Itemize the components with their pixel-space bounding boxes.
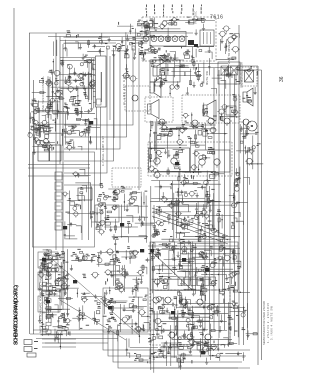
- switch section box S1b: [50, 145, 62, 161]
- wire jack lead 2: [42, 342, 76, 344]
- net label column N1: [146, 5, 147, 17]
- IF transformer can T4: [165, 36, 171, 42]
- IF transformer can T5: [172, 36, 178, 42]
- wire long vertical at x88: [88, 118, 90, 240]
- connector pin box P2: [55, 182, 62, 190]
- speaker SP3: [148, 100, 160, 119]
- wire right vertical bus line 7: [234, 74, 236, 336]
- wire regulator block left edge inner: [152, 242, 154, 358]
- wire diagonal mid-right 3: [152, 216, 228, 244]
- transformer row box T2-T8: [150, 32, 186, 47]
- oscillator cluster (Q2 X1 R30-R36 C40-C48): [44, 55, 97, 118]
- wire right vertical bus line 5: [224, 70, 226, 330]
- regulator section box G3: [191, 277, 196, 286]
- power chain resistor R86: [46, 299, 51, 303]
- transistor Q7 can: [243, 119, 249, 125]
- wire mid-left horizontal bus line 1: [28, 164, 90, 166]
- wire top-right corner vertical stub outer: [227, 66, 229, 74]
- wire bottom bus line 1: [33, 329, 207, 331]
- transistor Q4 can: [192, 120, 198, 126]
- output transistor Q14 can: [181, 299, 187, 305]
- mute circuit dashed box: [125, 86, 150, 111]
- regulator section box G1: [178, 277, 183, 286]
- transistor Q6 can: [224, 118, 230, 124]
- mid bottom cluster (VR1 R62-R68): [96, 186, 153, 251]
- power group box 2: [38, 272, 64, 290]
- net label column N7: [201, 5, 202, 14]
- dark component body E5: [108, 306, 112, 309]
- power group box 1: [38, 252, 58, 268]
- detector cluster (D1 D2 C30 R20): [216, 26, 240, 60]
- wire mid-left horizontal bus line 3: [28, 175, 88, 177]
- svg-text:IF AMP 455 KHZ: IF AMP 455 KHZ: [122, 75, 126, 105]
- dark component body E11: [205, 268, 209, 271]
- wire nested corner bus segment 4: [64, 48, 114, 161]
- wire long diagonal lower-left 2: [60, 300, 126, 340]
- IF strip lower cluster (R10-R18 C21-C28): [144, 45, 214, 75]
- svg-text:NOTE: THIS SCHEMATIC FOR D: NOTE: THIS SCHEMATIC FOR DC-970C P.W.BOA…: [39, 267, 43, 333]
- connector pin box P4: [55, 202, 62, 210]
- svg-text:FINE TUNING CONTROL: FINE TUNING CONTROL: [41, 75, 45, 112]
- upper mid wiring cluster: [151, 60, 204, 96]
- svg-text:VHF OSC: VHF OSC: [194, 11, 198, 24]
- wire into IC pair 2: [60, 60, 95, 62]
- connector pin box P1: [55, 172, 62, 180]
- dark component body E2: [140, 249, 144, 252]
- board outline regulator block: [150, 242, 238, 290]
- dashed box VR network: [112, 168, 141, 187]
- wire diagonal mid-right 1: [152, 208, 228, 236]
- push-pull transistor QB1: [199, 159, 205, 165]
- crystal filter box XF1: [200, 30, 214, 46]
- speaker dashed box lower-left: [145, 97, 173, 122]
- IC main amplifier IC1 AN7218: [96, 56, 107, 107]
- net label column N4: [172, 5, 174, 14]
- wire top-right corner horizontal outer: [228, 65, 258, 67]
- push-pull section dashed box: [148, 142, 232, 176]
- wire right mid horizontal line 2: [148, 249, 234, 251]
- wire far-right border vertical outer: [257, 66, 259, 365]
- power chain resistor R80: [46, 252, 51, 256]
- svg-text:MUTE SW: MUTE SW: [205, 70, 209, 85]
- wire bottom bus line 2: [30, 333, 150, 335]
- wire jack lead 3: [42, 346, 76, 348]
- net label column N2: [154, 5, 155, 15]
- connector pin box P6: [55, 222, 62, 230]
- regulator section box G2: [184, 277, 189, 286]
- relay box RL1: [78, 188, 92, 200]
- wire right vertical bus line 3: [213, 68, 215, 330]
- wire long vertical at x63: [62, 44, 64, 310]
- svg-text:7616: 7616: [210, 15, 224, 21]
- speaker SP2: [150, 78, 161, 98]
- power chain resistor R90: [46, 330, 51, 334]
- wire right vertical bus line 4: [218, 70, 220, 338]
- output transistor Q12 can: [153, 297, 159, 303]
- IF amplifier cluster (Q3 Q4 T9 R50-R58): [148, 119, 228, 189]
- wire right of IC vertical 1: [109, 56, 111, 120]
- speaker box upper: [150, 60, 180, 82]
- speaker dashed box lower-right: [182, 95, 240, 123]
- svg-text:SEMICONDUCTOR USED 2SC945: SEMICONDUCTOR USED 2SC945: [262, 300, 266, 345]
- net label column N3: [163, 5, 164, 17]
- wire nested corner bus segment 5: [64, 48, 107, 173]
- net label column N5: [181, 5, 182, 15]
- regulator cluster (Q7 ZD1 R90-R96): [149, 240, 250, 309]
- wire nested corner bus segment 1: [64, 48, 133, 125]
- dark component body Q9: [188, 40, 194, 45]
- wire jack lead 1: [42, 338, 76, 340]
- power chain resistor R84: [46, 283, 51, 287]
- wire long diagonal lower-left 1: [44, 252, 140, 336]
- power chain resistor R85: [46, 291, 51, 295]
- connector pin box P3: [55, 192, 62, 200]
- mute transistor Q11: [132, 95, 138, 101]
- IF transformer can T2: [151, 36, 157, 42]
- power gap cluster: [77, 272, 102, 303]
- power mid top cluster (D5-D8): [70, 249, 114, 271]
- regulator section box G6: [210, 277, 215, 286]
- wire top bus line 1: [29, 32, 193, 34]
- power chain resistor R88: [46, 314, 51, 318]
- wire left page rule: [13, 8, 15, 285]
- detector right cluster (D4 C65): [211, 65, 254, 94]
- input transformer can T1: [143, 36, 149, 42]
- switch section box S1a: [38, 145, 49, 161]
- connector pin box P5: [55, 212, 62, 220]
- power group box 3: [38, 296, 60, 312]
- wire right upper horizontal line 1: [150, 63, 228, 65]
- wire bottom-left nested corner 2: [108, 330, 246, 356]
- wire top bus line 3: [60, 40, 148, 42]
- output transistor Q18 can: [205, 334, 211, 340]
- wire bottom bus line 3: [36, 338, 118, 340]
- mute area cluster (Q11 R47): [220, 97, 240, 120]
- wire right upper horizontal line 2: [153, 67, 232, 69]
- wire top-right corner vertical stub inner: [231, 70, 233, 78]
- wire bottom-left nested corner 1: [103, 330, 250, 350]
- dark component body E1: [120, 223, 124, 226]
- svg-text:3. IN60 4. MUTE SW: 3. IN60 4. MUTE SW: [270, 305, 274, 340]
- wire right vertical bus line 10: [247, 150, 249, 340]
- staircase zone sparse cluster: [98, 183, 146, 243]
- wire right vertical bus line 1: [204, 186, 206, 330]
- push-pull box A: [149, 148, 190, 172]
- matching transformer box T11: [226, 106, 236, 115]
- headphone jack J1: [24, 340, 32, 345]
- RF input stage cluster (L1 C1-C6 R1-R4): [54, 31, 129, 60]
- power left strip cluster (R80-R92 C82-C92): [38, 249, 79, 349]
- switch bank zone cluster (S2): [62, 169, 104, 240]
- dark component body E4: [150, 249, 154, 252]
- coupling capacitor pair C36 C37: [170, 85, 174, 89]
- dark component body E12: [175, 162, 179, 165]
- net label column N6: [193, 5, 194, 16]
- wire right vertical bus line 2: [209, 186, 211, 334]
- audio output column cluster (SP1 C35 R25): [240, 66, 258, 137]
- band filter cluster (L5 C55): [30, 120, 58, 146]
- power chain resistor R81: [46, 260, 51, 264]
- wire into IC pair 1: [60, 57, 95, 59]
- meter amplifier cluster (Q8 M1 R100-R106): [148, 302, 242, 362]
- wire diagonal bottom-right: [152, 252, 192, 290]
- svg-text:ANT TRIMMER: ANT TRIMMER: [227, 42, 231, 64]
- IF transformer can T3: [158, 36, 164, 42]
- push-pull box B: [195, 150, 230, 172]
- wire IC left pin bus 2: [88, 60, 90, 100]
- AGC box: [218, 62, 240, 84]
- power chain resistor R82: [46, 268, 51, 272]
- dark component body E10: [73, 280, 77, 283]
- wire right vertical bus line 9: [243, 120, 245, 345]
- wire bottom bus line 4: [45, 342, 108, 344]
- board outline meter block: [150, 290, 230, 345]
- lamp box zone cluster (PL1 PL2): [100, 292, 150, 343]
- speaker SP2: [153, 61, 166, 81]
- board outline lamp block: [103, 288, 148, 332]
- power chain resistor R89: [46, 322, 51, 326]
- dark component body E7: [201, 351, 205, 354]
- IF transformer can T6: [179, 36, 185, 42]
- svg-text:1. 2SA733 2. 2SC1815: 1. 2SA733 2. 2SC1815: [266, 302, 270, 343]
- dark component body E13: [42, 258, 46, 261]
- regulator section box G4: [197, 277, 202, 286]
- dark component body E8: [89, 121, 93, 124]
- svg-text:4-7 DIAL LAMP 6.3V: 4-7 DIAL LAMP 6.3V: [101, 136, 105, 166]
- wire top bus line 2: [48, 36, 188, 38]
- audio driver cluster (Q5 Q6 R70-R78 C74-C80): [150, 177, 248, 243]
- band switch right cluster (C61 C62): [79, 103, 100, 150]
- wire bottom-left nested corner 4: [118, 330, 238, 368]
- svg-text:36: 36: [279, 76, 285, 82]
- push-pull transistor QB2: [214, 159, 220, 165]
- transistor Q5 can: [208, 118, 214, 124]
- svg-text:SPEAKER SELECTOR: SPEAKER SELECTOR: [240, 62, 244, 88]
- dark component body E6: [171, 311, 175, 314]
- wire left outer vertical bus: [29, 33, 31, 334]
- board outline IF strip: [142, 17, 216, 61]
- speaker SP1: [243, 88, 253, 106]
- wire nested corner bus segment 2: [64, 48, 127, 137]
- phone pickup circle M1: [247, 121, 257, 131]
- power right mid cluster (C94-C98): [104, 246, 153, 297]
- push-pull transistor QA2: [171, 158, 177, 164]
- bottom DC jack cluster (J4 D9): [160, 338, 210, 369]
- output transistor Q17 can: [187, 334, 193, 340]
- wire staircase feed vertical: [138, 48, 140, 190]
- component box lower mid: [95, 205, 119, 222]
- output transistor Q16 can: [169, 332, 175, 338]
- dark component body Q10: [194, 44, 198, 47]
- wire left inner vertical bus: [33, 80, 35, 334]
- wire bottom-right horizontal: [150, 367, 250, 369]
- wire right vertical bus line 6: [229, 72, 231, 342]
- wire far-right border vertical inner: [261, 70, 263, 360]
- push-pull transistor QA1: [154, 158, 160, 164]
- AGC cluster (D3 R60 C64): [235, 124, 263, 185]
- wire nested corner bus segment 6: [64, 48, 101, 185]
- mixer stage cluster (Q1 T1 C8-C12): [114, 20, 160, 61]
- board outline switch board: [33, 152, 95, 247]
- dark component body E9: [182, 258, 186, 261]
- wire regulator block left edge outer: [150, 186, 152, 370]
- transistor Q3 can: [159, 119, 165, 125]
- wire right mid horizontal line 1: [148, 245, 238, 247]
- tone box interior cluster (C70 R69): [182, 94, 239, 126]
- output transformer dashed box with X body T10: [242, 67, 257, 86]
- wire nested corner bus segment 3: [64, 48, 120, 149]
- wire mid-left horizontal bus line 2: [28, 167, 90, 169]
- fine tune wires cluster: [32, 78, 46, 94]
- svg-text:SCHEMATIC DIAGRAM (DC-970C): SCHEMATIC DIAGRAM (DC-970C): [14, 285, 20, 345]
- power chain resistor R83: [46, 275, 51, 279]
- output jack column cluster (J2 J3 C98): [229, 301, 258, 361]
- output transistor Q13 can: [165, 297, 171, 303]
- power chain resistor R87: [46, 307, 51, 311]
- wire IC left pin bus 1: [91, 58, 93, 104]
- wire bottom-left nested corner 3: [113, 330, 242, 362]
- lamp feed cluster (R99 C99): [72, 301, 101, 331]
- regulator section box G5: [204, 277, 209, 286]
- wire right vertical bus line 8: [238, 25, 240, 345]
- band switch cluster (S1 R40-R48 C52-C60): [28, 96, 88, 154]
- wire top-right corner horizontal inner: [232, 69, 262, 71]
- wire vertical from top bus at x60: [59, 37, 61, 165]
- IF transformer row labels cluster (C13-C20): [142, 17, 215, 42]
- right of IC cluster (R38 C50): [122, 64, 137, 83]
- wire right of IC vertical 2: [113, 56, 115, 138]
- dark component body E14: [46, 300, 50, 303]
- wire vertical from top bus at x56: [55, 33, 57, 250]
- speaker SP4: [203, 100, 216, 121]
- bottom mid cluster (C100 R110): [126, 338, 158, 373]
- dark component body E3: [63, 226, 67, 229]
- output transistor Q15 can: [197, 299, 203, 305]
- wire diagonal mid-right 2: [152, 212, 228, 240]
